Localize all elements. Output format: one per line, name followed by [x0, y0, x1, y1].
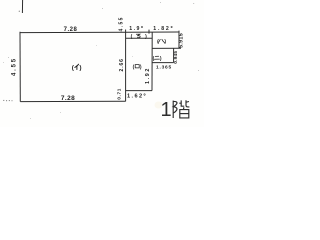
svg-text:1.365: 1.365 — [156, 65, 172, 71]
wire: left wall — [19, 32, 21, 102]
svg-text:7.28: 7.28 — [61, 95, 75, 102]
svg-text:): ) — [79, 64, 81, 71]
kana i of (i) — [75, 64, 79, 69]
node: small dot above corner — [19, 11, 20, 12]
kana ni of (ni) — [154, 56, 159, 59]
wire: bottom of (ho) strip — [126, 37, 153, 39]
wire: bottom of (ro) room — [126, 90, 152, 92]
paper background — [0, 0, 204, 127]
wire: right wall of (ha) — [178, 31, 180, 49]
floor label 1F: kanji kai (drawn) — [173, 100, 189, 118]
svg-text:4.55: 4.55 — [119, 16, 125, 31]
wire: bottom of (ha) — [152, 47, 181, 49]
kana glyph strokes (drawn as paths: grader lacks CJK fonts) — [75, 34, 165, 69]
kana ro of (ro) — [135, 65, 139, 68]
node: top edge of building — [20, 31, 179, 34]
svg-text:4.55: 4.55 — [12, 57, 18, 76]
svg-text:0.945: 0.945 — [173, 51, 179, 64]
node: dotted marks left of bottom corner — [3, 100, 12, 101]
scan noise speckles — [3, 2, 199, 119]
wire: bottom edge — [20, 100, 125, 102]
svg-text:0.71: 0.71 — [116, 88, 121, 100]
svg-text:5.915: 5.915 — [178, 33, 184, 48]
svg-text:1.92: 1.92 — [145, 67, 151, 84]
svg-text:1.62º: 1.62º — [127, 94, 147, 100]
wire: wall between (ro) and (ha/ni) — [151, 32, 153, 91]
svg-text:7.28: 7.28 — [64, 27, 78, 33]
kana ha of (ha) — [158, 39, 165, 43]
wire: right wall of (ni) — [173, 48, 175, 62]
wire: fold line above top-left corner — [21, 0, 23, 13]
wire: dimension tick between 1.90 and 1.82 — [148, 30, 150, 34]
kana ro-hira of strip label — [136, 34, 140, 37]
svg-text:1.9º: 1.9º — [129, 26, 144, 32]
svg-text:1: 1 — [161, 99, 172, 121]
svg-text:1.82º: 1.82º — [153, 26, 174, 32]
faint smudge near 1F label — [155, 102, 163, 109]
wire: bottom of (ni) — [152, 62, 174, 64]
svg-text:2.66: 2.66 — [119, 58, 125, 71]
wire: partition wall between (i) and (ro) column — [125, 30, 127, 102]
